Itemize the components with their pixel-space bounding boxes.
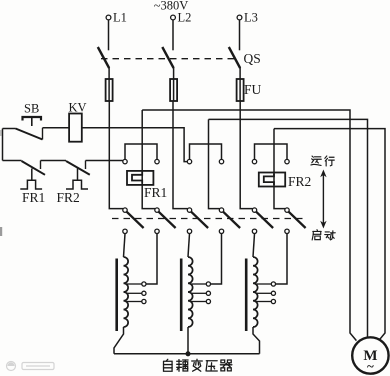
tap 2 transformer T2: [191, 291, 211, 295]
contact FR1 NC blade: [22, 161, 46, 175]
fuse FU phase L1: [106, 79, 113, 101]
terminal L2: [171, 11, 192, 25]
svg-text:L2: L2: [178, 11, 192, 25]
changeover pole 4 hinge: [219, 208, 223, 212]
QS linkage dashed line: [101, 58, 236, 60]
changeover pole 2 blade: [159, 212, 176, 228]
run contact 5: [252, 159, 256, 163]
svg-text:FU: FU: [244, 82, 262, 97]
wire L1 terminal to switch: [108, 20, 110, 50]
tap 1 transformer T3: [256, 282, 276, 286]
wire L2 phase drop: [173, 101, 188, 209]
label FR2 left: [57, 190, 80, 205]
tap 1 transformer T1: [126, 282, 146, 286]
watermark logo: [7, 362, 55, 371]
thermal button FR2: [66, 169, 88, 190]
knife switch QS pole 3 blade: [229, 47, 240, 68]
svg-text:FR1: FR1: [22, 190, 45, 205]
label FR1 left: [22, 190, 45, 205]
svg-text:L3: L3: [244, 11, 258, 25]
changeover pole 4 blade: [223, 212, 240, 228]
start contact 4: [219, 229, 223, 233]
svg-text:QS: QS: [244, 51, 261, 66]
wire T2 right terminal drop: [211, 234, 222, 285]
wire control upper to SB: [3, 128, 16, 130]
label KV: [69, 101, 87, 115]
label FR1 heater: [144, 185, 167, 200]
fuse FU phase L2: [170, 79, 177, 101]
run contact pair 1 bridge: [125, 144, 157, 159]
tap 2 transformer T3: [256, 291, 276, 295]
run contact 4: [219, 159, 223, 163]
contact FR2 NC blade: [66, 161, 90, 175]
wire FR1 to FR2 contact: [41, 160, 67, 162]
power supply label ~380V: [154, 0, 189, 13]
label FR2 heater: [288, 174, 311, 189]
svg-text:SB: SB: [24, 102, 39, 116]
heater FR2 box: [259, 173, 285, 187]
svg-text:FR2: FR2: [57, 190, 80, 205]
wire heater drop phase C: [274, 129, 285, 209]
contact SB blade: [16, 128, 43, 140]
label autotransformer (Chinese: zi ou bian ya qi): [164, 359, 232, 371]
heater FR1 box: [127, 171, 153, 185]
label FU: [244, 82, 262, 97]
changeover linkage dashed line: [112, 218, 304, 220]
wire heater drop phase B: [209, 119, 220, 208]
motor label M~: [363, 348, 377, 374]
wire heater drop phase A: [142, 110, 155, 209]
start contact 2: [155, 229, 159, 233]
run contact 6: [285, 159, 289, 163]
changeover pole 1 blade: [127, 212, 144, 228]
thermal button FR1: [20, 169, 42, 190]
star point bus: [114, 353, 260, 355]
wire L3 terminal to switch: [239, 20, 241, 50]
terminal L1: [106, 11, 127, 25]
pushbutton SB actuator: [23, 117, 42, 126]
wire control left riser: [2, 129, 4, 161]
run contact 1: [123, 159, 127, 163]
autotransformer T2 winding: [188, 257, 193, 327]
wire motor phase C bus: [274, 129, 385, 340]
run contact 2: [155, 159, 159, 163]
tap 3 transformer T2: [191, 299, 211, 303]
tap 2 transformer T1: [126, 291, 146, 295]
run contact 3: [187, 159, 191, 163]
knife switch QS pole 2 blade: [162, 47, 173, 68]
wire T1 left terminal drop: [124, 234, 126, 258]
label run (Chinese: yun xing): [311, 156, 334, 166]
run contact pair 3 bridge: [255, 144, 288, 159]
wire FR2 to run contact: [86, 160, 123, 162]
svg-text:L1: L1: [113, 11, 127, 25]
wire SB to KV: [43, 127, 70, 129]
wire L1 phase drop: [109, 101, 123, 209]
wire T2 to star bus: [187, 327, 189, 354]
wire KV to run contact: [82, 128, 188, 162]
start contact 5: [252, 229, 256, 233]
wire QS pole 3 to fuse: [239, 68, 241, 102]
handle travel arrow: [320, 170, 326, 229]
wire QS pole 2 to fuse: [173, 68, 175, 102]
start contact 6: [285, 229, 289, 233]
heater FR1 element: [132, 172, 142, 184]
autotransformer T3 winding: [253, 257, 258, 327]
svg-text:KV: KV: [69, 101, 87, 115]
tap 1 transformer T2: [191, 282, 211, 286]
start contact 3: [187, 229, 191, 233]
changeover pole 2 hinge: [155, 208, 159, 212]
wire control lower run: [3, 160, 22, 162]
autotransformer T3 core: [245, 259, 248, 332]
wire motor phase B bus: [209, 119, 368, 337]
autotransformer T2 core: [180, 259, 183, 332]
changeover pole 6 blade: [289, 212, 306, 228]
label QS: [244, 51, 261, 66]
svg-text:~: ~: [367, 359, 374, 374]
start contact 1: [123, 229, 127, 233]
star junction: [186, 352, 190, 356]
label SB: [24, 102, 39, 116]
wire T1 right terminal drop: [146, 234, 157, 285]
svg-text:FR1: FR1: [144, 185, 167, 200]
changeover pole 1 hinge: [123, 208, 127, 212]
scan artifact left edge: [0, 130, 2, 236]
changeover pole 6 hinge: [285, 208, 289, 212]
wire T1 to star bus: [114, 327, 124, 354]
terminal L3: [237, 11, 258, 25]
wire T3 to star bus: [253, 327, 260, 354]
changeover pole 5 blade: [256, 212, 273, 228]
motor M circle: [352, 337, 388, 373]
changeover pole 5 hinge: [252, 208, 256, 212]
label start (Chinese: qi dong): [312, 230, 335, 240]
wire L2 terminal to switch: [172, 20, 174, 50]
autotransformer T1 winding: [124, 257, 129, 327]
run contact pair 2 bridge: [190, 144, 222, 159]
wire L3 phase drop: [240, 101, 252, 209]
knife switch QS pole 1 blade: [98, 47, 109, 68]
wire T3 right terminal drop: [276, 234, 287, 285]
wire motor phase A bus: [142, 110, 356, 341]
autotransformer T1 core: [115, 259, 118, 332]
changeover pole 3 hinge: [187, 208, 191, 212]
wire T3 left terminal drop: [253, 234, 255, 258]
svg-text:FR2: FR2: [288, 174, 311, 189]
tap 3 transformer T3: [256, 299, 276, 303]
heater FR2 element: [264, 174, 274, 186]
relay coil KV: [69, 114, 82, 142]
wire T2 left terminal drop: [188, 234, 190, 258]
fuse FU phase L3: [237, 79, 244, 101]
tap 3 transformer T1: [126, 299, 146, 303]
wire QS pole 1 to fuse: [108, 68, 110, 102]
changeover pole 3 blade: [191, 212, 208, 228]
